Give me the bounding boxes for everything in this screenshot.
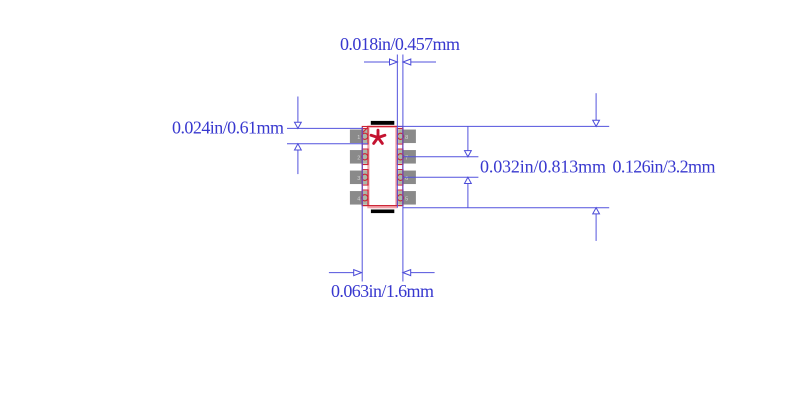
pin 7 outline — [397, 149, 403, 164]
top dimension arrow line right — [403, 59, 436, 65]
pad 8 — [398, 130, 416, 144]
silkscreen bar bottom — [371, 210, 394, 214]
pin 1 marker asterisk — [371, 130, 385, 143]
svg-text:0.024in/0.61mm: 0.024in/0.61mm — [172, 118, 284, 138]
pad 7 — [398, 150, 416, 164]
right dimension line 2 (pad 7 center) — [403, 156, 478, 158]
left dimension line lower — [287, 143, 368, 145]
bottom dimension arrow line right — [403, 270, 435, 276]
svg-text:0.063in/1.6mm: 0.063in/1.6mm — [331, 281, 434, 301]
right dimension line 3 (pad 6 center) — [403, 176, 478, 178]
svg-text:2: 2 — [357, 155, 360, 161]
pin 8 outline — [397, 129, 403, 144]
svg-text:8: 8 — [405, 135, 408, 141]
pin 1 outline — [362, 129, 368, 144]
left dimension vertical arrows — [295, 97, 302, 175]
top dimension arrow line left — [364, 59, 397, 65]
dimension extension line left (body left edge) — [361, 127, 363, 282]
pitch dimension vertical arrows — [465, 126, 472, 207]
pad 1 — [350, 130, 368, 144]
pad 3 — [350, 171, 368, 185]
svg-text:0.018in/0.457mm: 0.018in/0.457mm — [340, 34, 460, 54]
svg-text:1: 1 — [357, 135, 360, 141]
svg-text:0.032in/0.813mm: 0.032in/0.813mm — [480, 157, 606, 177]
pad 6 — [398, 171, 416, 185]
svg-text:7: 7 — [405, 155, 408, 161]
left dimension line upper — [287, 127, 362, 129]
silkscreen bar top — [371, 121, 395, 125]
dimension extension line right (body right edge) — [402, 55, 404, 282]
svg-text:3: 3 — [357, 176, 360, 182]
svg-text:5: 5 — [405, 196, 408, 202]
pin 6 outline — [397, 170, 403, 185]
svg-text:6: 6 — [405, 176, 408, 182]
assembly body outline (pink) — [368, 127, 396, 208]
pad 5 — [398, 191, 416, 205]
pin 4 outline — [362, 190, 368, 205]
pin 5 outline — [397, 190, 403, 205]
overall dimension vertical arrows — [593, 93, 600, 241]
dimension extension line pin width — [396, 55, 398, 208]
svg-text:0.126in/3.2mm: 0.126in/3.2mm — [613, 157, 716, 177]
pin 3 outline — [362, 170, 368, 185]
pin 1 corner bevel — [362, 127, 368, 133]
pad 4 — [350, 191, 368, 205]
right dimension line 1 (top) — [397, 125, 609, 127]
svg-text:4: 4 — [357, 196, 360, 202]
pin 2 outline — [362, 149, 368, 164]
right dimension line 4 (bottom) — [403, 207, 609, 209]
bottom dimension arrow line left — [329, 270, 362, 276]
pad 2 — [350, 150, 368, 164]
component body outline — [362, 127, 403, 206]
